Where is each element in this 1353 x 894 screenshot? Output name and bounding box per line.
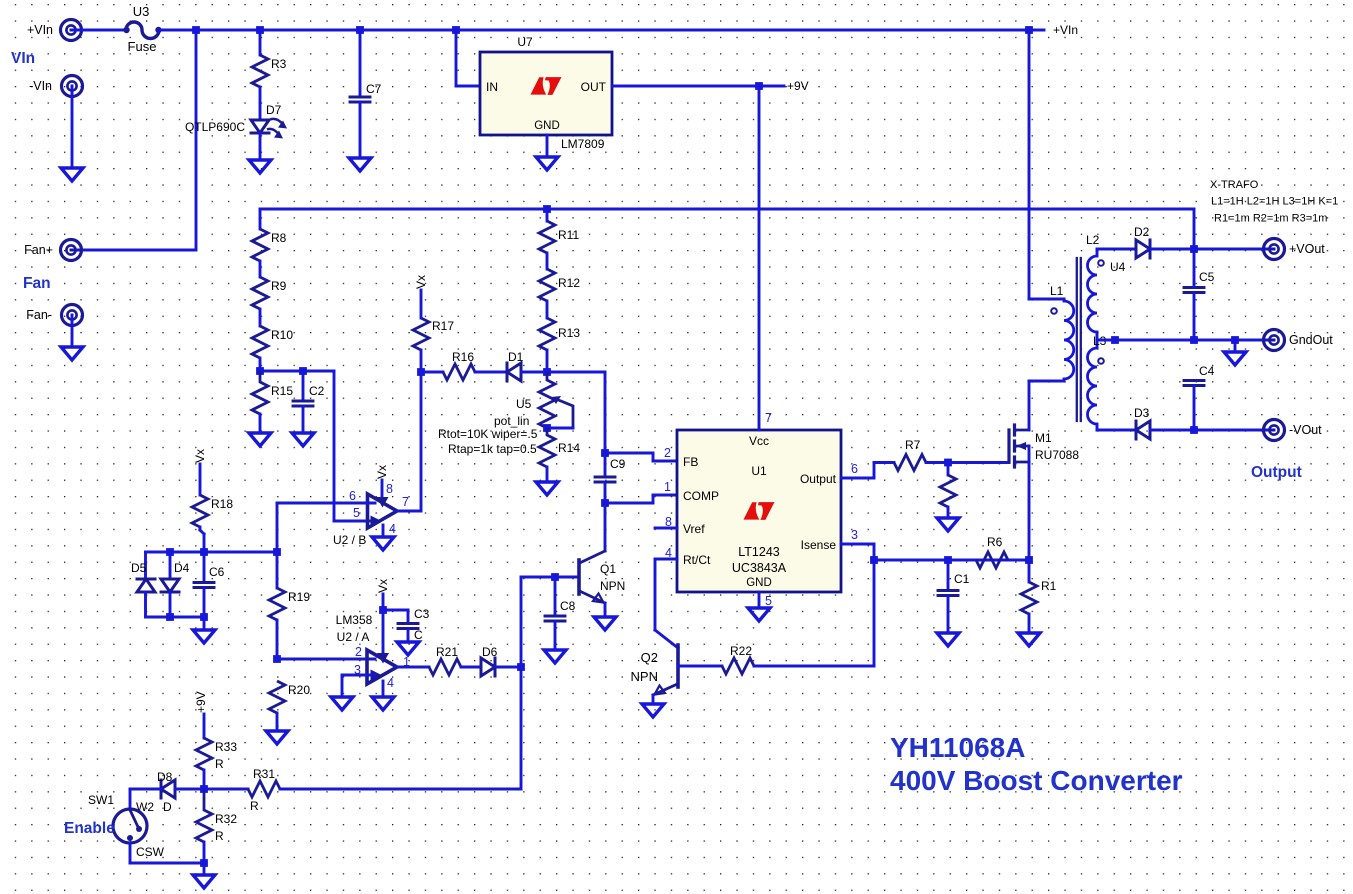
junction R6 M1 source <box>1025 556 1033 564</box>
terminal +VOut <box>1264 239 1326 260</box>
ground C8 <box>544 650 566 663</box>
junction Vx C3 <box>379 606 387 614</box>
MOSFET M1 RU7088 <box>1009 425 1079 467</box>
junction D3 C4 <box>1190 426 1198 434</box>
svg-text:Vx: Vx <box>193 449 207 463</box>
wire R16 to D1 <box>475 371 507 374</box>
wire R1 to ground <box>1028 614 1031 633</box>
net +9V at R33 <box>194 691 208 713</box>
wire +VIn down to L1 <box>1029 30 1064 299</box>
svg-text:Output: Output <box>800 472 837 486</box>
wire junction to gate resistor <box>947 463 950 476</box>
svg-text:RU7088: RU7088 <box>1035 448 1079 462</box>
wire M1 source <box>1028 446 1031 560</box>
wire R20 to ground <box>276 713 279 731</box>
wire to SW ground <box>203 863 206 875</box>
ground gate resistor <box>937 518 959 531</box>
svg-text:LT1243: LT1243 <box>738 545 780 559</box>
ground C1 <box>937 633 959 646</box>
svg-text:R3: R3 <box>271 57 287 71</box>
terminal -VIn <box>29 76 82 97</box>
junction rail U7 <box>452 26 460 34</box>
wire rail to R3 <box>259 30 262 55</box>
wire C9 top <box>604 453 607 477</box>
svg-text:VIn: VIn <box>11 50 35 67</box>
pin 7 label U1 <box>765 411 772 425</box>
wire R3 to D7 <box>259 87 262 120</box>
terminal Fan- <box>26 305 82 326</box>
pin 8 label <box>386 482 393 496</box>
pot U5 wiper <box>438 396 573 456</box>
wire Q1 base vertical <box>284 577 521 789</box>
phase dot L1 <box>1051 308 1057 314</box>
pin 5 label U1 <box>765 594 772 608</box>
svg-text:Vx: Vx <box>376 579 390 593</box>
inductor L3 secondary <box>1088 334 1107 430</box>
wire Vcc vertical <box>758 86 761 430</box>
wire Isense line <box>874 559 1029 562</box>
resistor R15 <box>252 371 293 414</box>
wire L2 to D2 <box>1097 248 1136 251</box>
capacitor C5 <box>1184 270 1215 293</box>
net Vx at U2A <box>376 579 390 593</box>
transistor Q2 NPN <box>631 645 678 695</box>
svg-text:D7: D7 <box>266 103 282 117</box>
wire D rail <box>146 551 278 554</box>
ground GndOut <box>1224 352 1246 365</box>
junction D8 R31 <box>200 785 208 793</box>
pin 1 label U1 <box>664 480 671 494</box>
wire R32 to node <box>203 842 206 863</box>
junction GndOut ground <box>1231 336 1239 344</box>
label R31 value <box>250 799 259 813</box>
wire COMP <box>605 495 677 503</box>
wire R21 to D6 <box>461 666 481 669</box>
resistor R13 <box>539 318 580 350</box>
svg-text:C5: C5 <box>1199 270 1215 284</box>
svg-text:Fan-: Fan- <box>26 308 52 322</box>
wire R7 to gate <box>926 461 1009 464</box>
wire to D ground <box>203 617 206 630</box>
svg-text:SW1: SW1 <box>88 793 114 807</box>
svg-text:GND: GND <box>534 120 560 132</box>
label VIn <box>11 50 35 67</box>
wire R12-R13 <box>546 301 549 318</box>
wire pin3 to ground <box>342 675 375 697</box>
svg-text:+VIn: +VIn <box>1053 23 1078 37</box>
capacitor C9 <box>595 457 626 482</box>
IC U1 LT1243 <box>677 430 841 592</box>
svg-text:Vcc: Vcc <box>749 434 769 448</box>
resistor R20 <box>269 681 310 713</box>
junction D6 Q1 base line <box>517 663 525 671</box>
wire D bottom rail <box>146 616 205 619</box>
svg-text:D8: D8 <box>157 770 173 784</box>
svg-text:7: 7 <box>765 411 772 425</box>
svg-text:4: 4 <box>389 522 396 536</box>
svg-text:R18: R18 <box>211 497 233 511</box>
pin 7 label <box>402 495 409 509</box>
label D <box>163 800 172 814</box>
svg-text:R21: R21 <box>436 645 458 659</box>
diode D5 <box>131 561 155 592</box>
junction D4 top <box>166 548 174 556</box>
junction C6 bottom <box>200 613 208 621</box>
junction C4 top <box>1190 336 1198 344</box>
ground U2A <box>372 697 394 710</box>
junction D1 R13 pot <box>543 368 551 376</box>
junction transformer tap <box>1111 336 1119 344</box>
svg-text:C4: C4 <box>1199 364 1215 378</box>
label C3 value <box>414 628 423 642</box>
wire +VIn to fuse <box>71 29 126 32</box>
svg-text:LM358: LM358 <box>336 613 373 627</box>
svg-text:Rt/Ct: Rt/Ct <box>683 553 711 567</box>
svg-text:Vref: Vref <box>683 522 705 536</box>
junction pot tap <box>543 424 551 432</box>
ground C7 <box>349 158 371 171</box>
wire gate resistor ground <box>947 507 950 518</box>
wire node to R31 <box>204 788 248 791</box>
label Fan <box>23 275 51 292</box>
resistor R17 <box>413 318 454 350</box>
diode D6 <box>481 645 498 676</box>
resistor R32 <box>196 789 237 842</box>
ground D7 <box>249 160 271 173</box>
wire L3 to D3 <box>1097 429 1136 432</box>
svg-text:R: R <box>215 829 224 843</box>
wire C7 to ground <box>359 102 362 158</box>
resistor R7 <box>894 438 926 471</box>
switch SW1 <box>88 793 165 859</box>
wire C6 bottom <box>203 588 206 618</box>
wire C4 bottom <box>1193 386 1196 431</box>
wire C8 to ground <box>554 621 557 650</box>
wire D3 to -VOut <box>1150 429 1274 432</box>
resistor R22 <box>722 644 754 674</box>
wire Vx to U2A <box>382 594 385 656</box>
ground U7 <box>536 157 558 170</box>
wire R10 to node <box>259 358 262 371</box>
wire L1 bottom to M1 <box>1029 379 1064 430</box>
junction top rail +VIn <box>1025 26 1033 34</box>
wire to R1 <box>1028 560 1031 582</box>
svg-text:FB: FB <box>683 455 698 469</box>
label R33 value <box>215 757 224 771</box>
svg-text:U1: U1 <box>751 464 767 478</box>
junction C6 top <box>200 548 208 556</box>
transformer core U4 <box>1077 258 1081 421</box>
svg-text:Q2: Q2 <box>641 650 658 665</box>
resistor R14 <box>539 428 580 467</box>
capacitor C1 <box>938 572 970 596</box>
svg-text:2: 2 <box>664 446 671 460</box>
wire rail to R11 <box>546 209 549 221</box>
note X-TRAFO <box>1210 179 1338 225</box>
svg-text:R22: R22 <box>730 644 752 658</box>
svg-text:R11: R11 <box>558 228 579 242</box>
svg-text:C8: C8 <box>560 599 576 613</box>
wire Q2 emitter to ground <box>652 695 655 704</box>
svg-text:R17: R17 <box>432 319 454 333</box>
label W2 <box>136 800 154 814</box>
svg-text:L1: L1 <box>1050 284 1064 298</box>
wire C5 top <box>1193 249 1196 288</box>
junction R10 R15 <box>256 367 264 375</box>
resistor R8 <box>252 229 287 261</box>
junction R17 opamp out <box>417 368 425 376</box>
pin 3 label U1 <box>851 528 858 542</box>
label +VIn net <box>1053 23 1078 37</box>
wire D2 to +VOut <box>1150 248 1274 251</box>
resistor R3 <box>252 55 287 87</box>
svg-text:R1: R1 <box>1041 579 1057 593</box>
capacitor C6 <box>194 565 225 588</box>
junction C1 <box>944 556 952 564</box>
svg-text:D4: D4 <box>174 561 190 575</box>
svg-text:YH11068A: YH11068A <box>890 732 1025 763</box>
wire Fan- to ground <box>71 315 74 347</box>
wire C9 bottom <box>604 482 607 503</box>
wire U2A output <box>397 666 429 669</box>
diode D4 <box>161 561 190 592</box>
junction Vcc 9V rail <box>755 82 763 90</box>
svg-text:Rtap=1k tap=0.5: Rtap=1k tap=0.5 <box>448 442 537 456</box>
wire R17 to node <box>420 350 423 372</box>
wire D6 to Q1 base line <box>495 666 521 669</box>
title YH11068A <box>890 732 1183 796</box>
wire D7 to ground <box>259 133 262 160</box>
pin 2 label U1 <box>664 446 671 460</box>
inductor L2 secondary <box>1086 233 1100 332</box>
svg-text:-VOut: -VOut <box>1289 423 1322 437</box>
terminal +VIn <box>27 20 82 41</box>
svg-text:R7: R7 <box>905 438 921 452</box>
svg-text:OUT: OUT <box>581 80 607 94</box>
wire rail to C7 <box>359 30 362 96</box>
svg-text:L1=1H L2=1H L3=1H K=1: L1=1H L2=1H L3=1H K=1 <box>1211 196 1338 208</box>
wire D5 to bottom rail <box>144 592 147 617</box>
svg-text:+9V: +9V <box>194 691 208 713</box>
wire base line to Q1 <box>521 576 579 579</box>
pin 5 label <box>353 506 360 520</box>
resistor R18 <box>192 495 233 527</box>
wire pin6 input <box>277 502 375 505</box>
svg-text:R8: R8 <box>271 231 287 245</box>
svg-text:U2 / A: U2 / A <box>337 630 370 644</box>
svg-text:C3: C3 <box>414 607 430 621</box>
svg-text:Fan+: Fan+ <box>24 243 53 257</box>
diode D7 LED <box>185 103 287 139</box>
wire R18 to rail <box>200 527 204 552</box>
svg-text:R: R <box>250 799 259 813</box>
pin 1 label <box>403 655 410 669</box>
ground diode network <box>193 630 215 643</box>
pin 6 label U1 <box>851 462 858 476</box>
resistor R12 <box>539 269 580 301</box>
svg-text:R19: R19 <box>288 590 310 604</box>
wire to Fan+ <box>71 30 196 250</box>
diode D1 <box>507 350 524 381</box>
resistor R11 <box>539 221 579 253</box>
svg-text:QTLP690C: QTLP690C <box>185 120 245 134</box>
label +9V net <box>787 79 809 93</box>
svg-text:1: 1 <box>664 480 671 494</box>
wire -VIn to ground <box>71 86 74 168</box>
svg-text:R15: R15 <box>271 384 293 398</box>
wire U2B output <box>397 372 421 511</box>
svg-text:R20: R20 <box>288 683 310 697</box>
wire transformer tap <box>1096 332 1099 348</box>
svg-text:NPN: NPN <box>631 669 658 684</box>
net Vx at R17 <box>414 275 428 289</box>
svg-text:R16: R16 <box>452 350 474 364</box>
net Vx at U2B <box>375 465 389 479</box>
svg-text:Rtot=10K wiper=.5: Rtot=10K wiper=.5 <box>438 427 538 441</box>
wire to C3 <box>383 610 408 622</box>
ground R15 <box>249 433 271 446</box>
capacitor C2 <box>293 384 325 406</box>
wire to C6 <box>203 552 206 581</box>
svg-text:GND: GND <box>746 577 772 589</box>
svg-text:C7: C7 <box>366 82 382 96</box>
svg-text:7: 7 <box>402 495 409 509</box>
pin 4 label U1 <box>665 546 672 560</box>
wire Q1 emitter to ground <box>604 603 607 617</box>
wire Vx to R18 <box>199 464 202 495</box>
svg-text:X-TRAFO: X-TRAFO <box>1210 179 1259 191</box>
svg-text:400V Boost Converter: 400V Boost Converter <box>890 765 1183 796</box>
wire RtCt to Q2 <box>655 559 678 648</box>
capacitor C8 <box>545 599 576 621</box>
pin 3 label <box>354 663 361 677</box>
svg-text:C6: C6 <box>209 565 225 579</box>
phase dot L2 <box>1098 260 1104 266</box>
junction D4 bottom <box>166 613 174 621</box>
wire node to C9 branch <box>547 371 605 374</box>
diode D3 <box>1134 406 1150 439</box>
svg-text:U2 / B: U2 / B <box>333 533 366 547</box>
net Vx at R18 <box>193 449 207 463</box>
svg-text:Enable: Enable <box>64 820 115 837</box>
ground Fan- <box>61 347 83 360</box>
svg-text:5: 5 <box>765 594 772 608</box>
op-amp U2/A <box>336 613 397 684</box>
svg-text:pot_lin: pot_lin <box>494 414 529 428</box>
svg-text:COMP: COMP <box>683 489 719 503</box>
wire tap to wiper <box>547 427 573 430</box>
wire to D4 <box>169 552 172 578</box>
wire C3 to ground <box>407 629 410 643</box>
junction R19 R20 pin2 <box>273 655 281 663</box>
svg-text:Fuse: Fuse <box>128 39 157 54</box>
wire D8 to SW1 <box>130 789 161 809</box>
wire pin2 input <box>277 658 375 661</box>
svg-text:IN: IN <box>486 80 498 94</box>
svg-text:L2: L2 <box>1086 233 1100 247</box>
svg-text:NPN: NPN <box>600 579 625 593</box>
svg-text:Output: Output <box>1251 464 1302 481</box>
wire rail to U7 IN <box>456 30 480 86</box>
svg-text:2: 2 <box>355 645 362 659</box>
svg-text:LM7809: LM7809 <box>561 137 605 151</box>
svg-text:D3: D3 <box>1134 406 1150 420</box>
wire Vref stub <box>655 527 677 530</box>
capacitor C7 <box>350 82 382 102</box>
wire COMP to Q1 collector <box>604 503 607 551</box>
label Enable <box>64 820 115 837</box>
resistor R19 <box>269 588 310 620</box>
wire C2 to ground <box>302 406 305 433</box>
wire R8-R9 <box>259 261 262 277</box>
svg-text:6: 6 <box>851 462 858 476</box>
svg-text:R32: R32 <box>215 812 237 826</box>
wire C1 to ground <box>947 596 950 634</box>
junction C2 <box>299 367 307 375</box>
wire R15 to ground <box>259 414 262 433</box>
junction D rail R19 <box>273 548 281 556</box>
ground -VIn <box>61 168 83 181</box>
wire Vx to U2B <box>381 480 384 500</box>
capacitor C4 <box>1184 364 1215 386</box>
wire tap to GndOut <box>1097 339 1274 342</box>
svg-text:Vx: Vx <box>414 275 428 289</box>
terminal -VOut <box>1264 420 1323 441</box>
svg-text:R14: R14 <box>558 441 580 455</box>
ground R20 <box>266 731 288 744</box>
svg-text:Fan: Fan <box>23 275 51 292</box>
svg-text:8: 8 <box>386 482 393 496</box>
svg-text:R13: R13 <box>558 326 580 340</box>
junction Isense R6 line <box>870 556 878 564</box>
svg-text:Isense: Isense <box>801 538 837 552</box>
wire 9V to R33 <box>203 714 206 738</box>
resistor R33 <box>196 738 237 770</box>
wire D4 to bottom rail <box>169 592 172 617</box>
svg-text:+VIn: +VIn <box>27 23 53 37</box>
svg-text:C1: C1 <box>954 572 970 586</box>
terminal GndOut <box>1264 330 1334 351</box>
svg-text:Vx: Vx <box>375 465 389 479</box>
junction C8 Q1 base <box>551 573 559 581</box>
wire U2A V- to ground <box>382 681 385 697</box>
svg-text:D5: D5 <box>131 561 147 575</box>
ground C3 <box>397 642 419 655</box>
wire Q2 base to R22 <box>678 665 722 668</box>
svg-text:3: 3 <box>851 528 858 542</box>
wire node to C2 and feedback <box>260 370 334 373</box>
resistor R31 <box>248 767 280 797</box>
svg-text:C: C <box>414 628 423 642</box>
svg-text:R1=1m R2=1m R3=1m: R1=1m R2=1m R3=1m <box>1214 213 1327 225</box>
junction COMP node <box>601 499 609 507</box>
wire C1 top <box>947 560 950 591</box>
wire mid rail <box>260 209 1194 249</box>
wire rail to R19 <box>276 552 279 588</box>
wire R19 to node <box>276 620 279 659</box>
regulator U7 LM7809 <box>480 35 612 151</box>
svg-text:R12: R12 <box>558 276 580 290</box>
svg-text:U3: U3 <box>133 4 150 19</box>
resistor R6 <box>976 535 1008 568</box>
ground U1 <box>748 608 770 621</box>
wire pin6 up to node <box>276 503 279 552</box>
resistor R9 <box>252 277 287 309</box>
svg-text:UC3843A: UC3843A <box>732 561 787 575</box>
junction R32 ground <box>200 859 208 867</box>
phase dot L3 <box>1098 358 1104 364</box>
junction R7 gate resistor <box>944 459 952 467</box>
